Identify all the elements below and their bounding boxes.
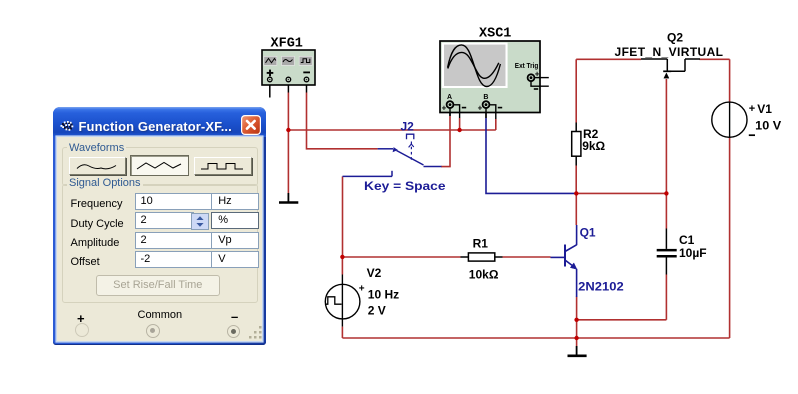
svg-text:9kΩ: 9kΩ: [582, 139, 605, 153]
wire: switch lower throw to node above V2: [342, 176, 344, 256]
waveforms group: [62, 147, 258, 186]
wire: XFG1 common terminal down to ground: [287, 85, 289, 193]
svg-text:Q1: Q1: [580, 226, 596, 240]
wire: node to Q2 gate vertical: [576, 192, 666, 194]
wire: node down to Q1 collector: [575, 193, 577, 225]
ground under XFG1: [279, 193, 298, 203]
wire: V1 top vertical: [729, 59, 731, 102]
wire: Q1 emitter down to ground: [576, 297, 578, 347]
svg-text:V1: V1: [757, 102, 772, 116]
svg-text:2 V: 2 V: [368, 304, 386, 318]
wire: R2 top to rail: [575, 59, 577, 131]
wire: R1 right to Q1 base: [495, 256, 551, 258]
wire: C1 bottom to emitter branch: [577, 275, 667, 320]
wire: long horizontal net from XFG1 common to scope B- hook (y=130): [288, 129, 495, 131]
svg-text:10 V: 10 V: [755, 118, 781, 132]
svg-text:B: B: [483, 94, 488, 101]
svg-text:C1: C1: [679, 233, 695, 247]
wire: R2 bottom to node: [575, 156, 577, 193]
capacitor C1: [657, 229, 677, 275]
junction node switch/V2/R1: [340, 255, 344, 259]
junction node R2 bottom: [574, 191, 578, 195]
wire: Q2 gate down to node: [665, 79, 667, 193]
wire: top rail from R2 top to Q2 drain (red part): [576, 58, 641, 60]
wire: scope B+ down and right to R2 bottom node (navy): [486, 108, 576, 194]
wire: scope A- hook down to node at y=130: [459, 118, 461, 130]
amplitude row: [71, 237, 120, 249]
svg-text:10µF: 10µF: [679, 246, 707, 260]
wire: scope B- hook vertical: [495, 119, 497, 130]
wire: C1 top lead from node: [665, 193, 667, 228]
sine button: [69, 157, 126, 175]
set rise/fall button: [96, 275, 220, 296]
svg-text:Key = Space: Key = Space: [364, 179, 446, 193]
switch J2: [343, 134, 442, 176]
svg-text:JFET_N_VIRTUAL: JFET_N_VIRTUAL: [615, 45, 724, 59]
junction node Q2 gate bottom: [664, 191, 668, 195]
svg-text:+: +: [478, 104, 483, 113]
svg-text:Ext Trig: Ext Trig: [515, 61, 539, 70]
terminals row: [77, 311, 85, 326]
svg-text:+: +: [749, 103, 755, 115]
title bar: [53, 107, 266, 137]
svg-text:V2: V2: [367, 266, 382, 280]
svg-text:XFG1: XFG1: [271, 36, 303, 51]
svg-text:+: +: [359, 283, 365, 294]
function generator XFG1: [262, 50, 315, 98]
oscilloscope XSC1: [440, 41, 549, 119]
offset row: [71, 256, 100, 268]
frequency row: [71, 198, 123, 210]
wire: V2 top lead: [341, 257, 343, 338]
wire: scope A+ pin down to switch output (x=450): [441, 108, 450, 167]
svg-text:A: A: [447, 94, 452, 101]
junction node emitter/bottom rail: [574, 336, 578, 340]
svg-text:10kΩ: 10kΩ: [469, 267, 499, 281]
pin label + of XFG1: [267, 70, 274, 77]
svg-text:10 Hz: 10 Hz: [368, 288, 399, 302]
signal options group: [62, 184, 258, 303]
resize grip: [249, 326, 263, 340]
duty cycle row: [71, 218, 124, 230]
svg-text:+: +: [442, 104, 447, 113]
transistor Q1: [551, 225, 577, 297]
square button: [194, 157, 252, 175]
resistor R2: [572, 132, 581, 157]
triangle button (selected): [130, 155, 189, 176]
svg-text:2N2102: 2N2102: [578, 280, 624, 294]
wire: V1 bottom vertical down to bottom rail: [729, 137, 731, 338]
title bar icon: [58, 119, 75, 132]
resistor R1: [468, 253, 494, 261]
junction node at scope A- / horizontal net: [457, 128, 461, 132]
svg-text:Q2: Q2: [667, 31, 683, 45]
wire: top rail from Q2 source to V1 (red part): [700, 58, 730, 60]
junction node emitter/C1 branch: [574, 318, 578, 322]
source V1: [712, 102, 755, 137]
wire: node to R1 left: [342, 256, 468, 258]
pin label - of XFG1: [303, 71, 310, 73]
JFET Q2: [641, 59, 700, 78]
ground under Q1: [568, 346, 587, 356]
wire: bottom rail from V2 to V1: [342, 337, 729, 339]
svg-text:J2: J2: [401, 120, 415, 134]
svg-text:R1: R1: [473, 236, 489, 250]
svg-text:XSC1: XSC1: [479, 27, 511, 42]
junction node at XFG1 common / horizontal net: [286, 128, 290, 132]
wire: XFG1 minus terminal down then right to switch J2 input: [307, 85, 378, 149]
source V2: [325, 283, 364, 319]
spinner: [191, 213, 210, 231]
Function Generator dialog window: [53, 107, 266, 345]
